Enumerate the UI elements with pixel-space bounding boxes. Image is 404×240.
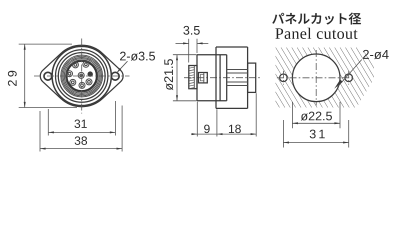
dimension Ø21.5 (173, 54, 197, 56)
mounting ear hole left (44, 72, 52, 80)
left hole crosshair (282, 71, 284, 85)
dimension 3.5 (183, 26, 199, 35)
contact pins (72, 62, 78, 68)
title Panel cutout (275, 28, 357, 39)
panel hatching (276, 48, 375, 108)
dimension Ø22.5 (291, 102, 293, 128)
screw hole left (280, 74, 288, 82)
right hole crosshair (348, 71, 350, 85)
thread lines (189, 67, 194, 68)
cutout horizontal centerline (290, 77, 343, 79)
front view vertical centerline (81, 39, 83, 114)
threaded mating stub (189, 66, 197, 89)
key slot detail (199, 73, 208, 83)
flange and body block (side) (215, 47, 217, 108)
dimension 29 (19, 43, 72, 45)
keyway pin (filled) (88, 71, 93, 76)
cutout vertical centerline (315, 50, 317, 106)
mounting ear hole right (111, 72, 119, 80)
side view centerline (184, 77, 262, 79)
knurled band circles (61, 55, 103, 97)
dimension 31 (cutout) (282, 120, 284, 148)
label 2-Ø4 with leader (363, 50, 389, 59)
insert face circle (67, 61, 97, 91)
label 2-Ø3.5 with leader (120, 52, 155, 61)
body cylinder &#216;21.5 (196, 55, 198, 101)
rear tail (248, 63, 256, 92)
dimensions 9 and 18 (196, 102, 198, 137)
cable bushing lines (227, 69, 248, 71)
panel cutout circle &#216;22.5 (292, 54, 340, 102)
center contact pin (78, 72, 84, 78)
connector flange outline (front view) (40, 45, 123, 106)
dimension 38 (39, 111, 41, 152)
coupling nut rim circle (52, 46, 111, 105)
screw hole right (345, 74, 353, 82)
front view horizontal centerline (34, 75, 130, 77)
dimension 31 (front) (47, 109, 49, 136)
title パネルカット径 (272, 13, 361, 25)
coupling ring outer circle (55, 50, 107, 102)
coupling ring inner circle (58, 53, 105, 100)
